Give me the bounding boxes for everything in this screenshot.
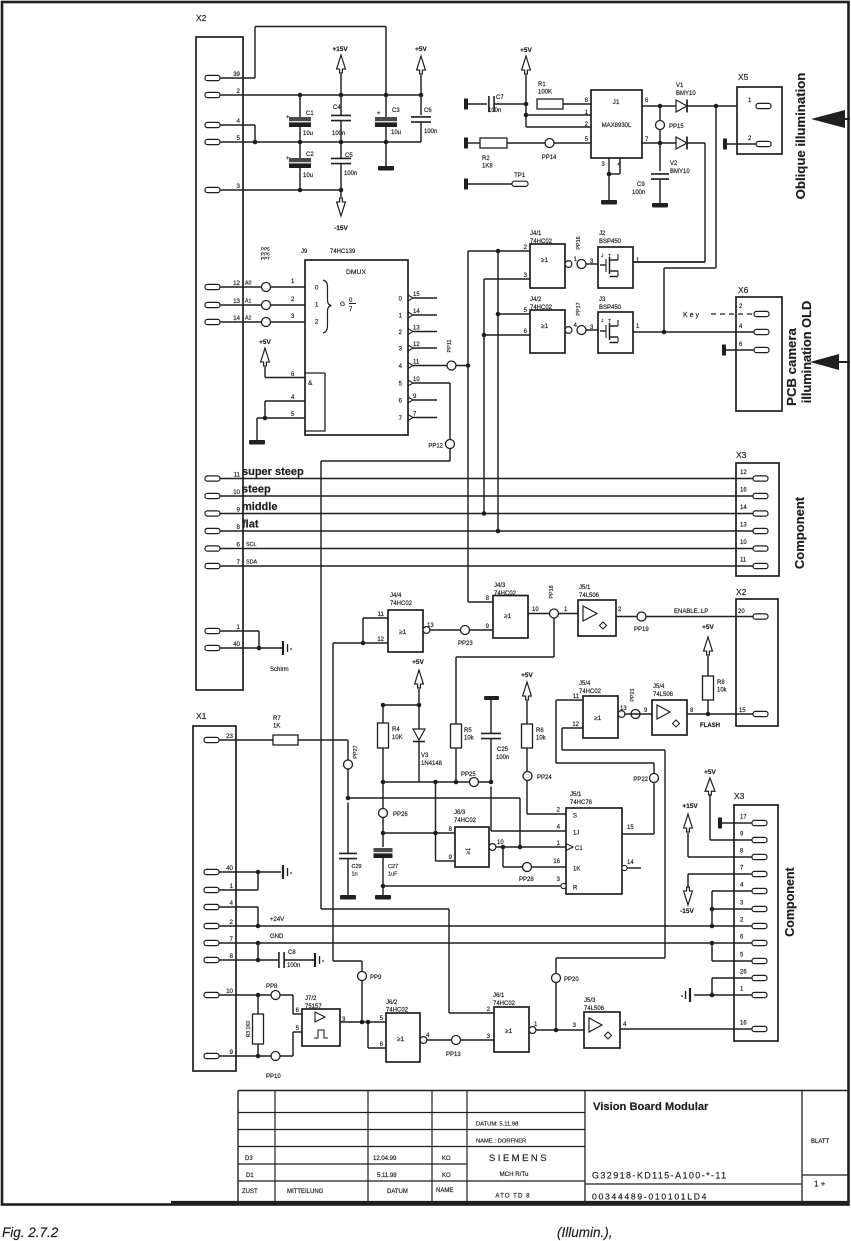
- X1 pin 9: [204, 1049, 234, 1059]
- power +15V (X3-8): [682, 803, 752, 857]
- wire X1-9 row / testpoint PP10: [219, 1032, 302, 1080]
- svg-text:12.04.99: 12.04.99: [373, 1156, 397, 1162]
- svg-text:A0: A0: [245, 281, 251, 287]
- terminal TP1 input: [464, 179, 468, 190]
- svg-text:S: S: [573, 814, 577, 820]
- svg-text:4: 4: [623, 1022, 627, 1028]
- connector X3 (bottom): [734, 791, 778, 1041]
- svg-text:BMY10: BMY10: [676, 91, 696, 97]
- svg-text:11: 11: [234, 472, 241, 479]
- X1 pin 4: [204, 900, 234, 910]
- gate J4/2 74HC02: [524, 297, 578, 353]
- svg-text:8: 8: [486, 596, 490, 602]
- svg-text:5: 5: [740, 953, 744, 959]
- svg-text:DATUM: DATUM: [387, 1189, 408, 1195]
- svg-text:V2: V2: [670, 161, 678, 167]
- svg-text:100n: 100n: [424, 129, 437, 135]
- svg-text:X1: X1: [196, 711, 207, 721]
- svg-text:R8: R8: [717, 680, 725, 686]
- X1 pin 7: [204, 936, 234, 946]
- wire X3-26/1 tie: [710, 978, 752, 997]
- power +5V (top): [415, 46, 427, 95]
- svg-text:1J: 1J: [573, 831, 579, 837]
- svg-text:7: 7: [349, 307, 353, 313]
- svg-text:100n: 100n: [632, 190, 645, 196]
- svg-text:1: 1: [748, 98, 752, 104]
- wire J1 pins 1,2 tie: [524, 104, 591, 127]
- svg-text:PP21: PP21: [630, 688, 636, 701]
- svg-text:2: 2: [230, 919, 234, 926]
- svg-text:PP24: PP24: [537, 775, 552, 781]
- X6 pin 6: [726, 342, 769, 353]
- svg-text:8: 8: [230, 953, 234, 960]
- svg-text:0: 0: [399, 297, 403, 303]
- svg-text:12: 12: [413, 342, 420, 348]
- IC J7/2 75157: [296, 996, 386, 1046]
- signal row steep: [220, 484, 768, 499]
- svg-text:MAX8930L: MAX8930L: [602, 123, 632, 129]
- X2 pin 8: [205, 524, 241, 534]
- svg-text:FLASH: FLASH: [700, 723, 720, 729]
- svg-text:12: 12: [572, 722, 579, 728]
- svg-text:3: 3: [573, 1023, 577, 1029]
- svg-text:V1: V1: [676, 83, 684, 89]
- svg-text:PP16: PP16: [576, 236, 582, 249]
- X2 pin 7: [205, 559, 241, 569]
- svg-text:J9: J9: [301, 249, 308, 255]
- svg-text:+15V: +15V: [332, 46, 348, 53]
- svg-text:(Illumin.),: (Illumin.),: [557, 1225, 613, 1240]
- svg-text:3: 3: [524, 273, 528, 279]
- svg-text:11: 11: [740, 558, 747, 564]
- svg-text:V3: V3: [421, 753, 429, 759]
- svg-text:16: 16: [740, 488, 747, 494]
- svg-text:J4/3: J4/3: [494, 583, 506, 589]
- svg-text:PP15: PP15: [669, 124, 684, 130]
- X2 pin 40: [205, 641, 241, 651]
- testpoint PP17: [576, 302, 594, 334]
- svg-text:ZUST: ZUST: [242, 1189, 258, 1195]
- svg-text:8: 8: [690, 708, 694, 714]
- resistor R2 1K8: [468, 138, 591, 170]
- resistor R8 10k: [703, 676, 728, 716]
- svg-text:5: 5: [585, 137, 589, 143]
- svg-text:9: 9: [237, 507, 241, 514]
- labels PP5 PP6 PP7: [261, 247, 270, 262]
- svg-text:11: 11: [413, 360, 420, 366]
- X2 pin 9: [205, 507, 241, 517]
- wire +24V row: [219, 917, 753, 928]
- wire J1-6 row: [642, 105, 676, 107]
- svg-text:C29: C29: [352, 864, 362, 870]
- svg-text:PP22: PP22: [633, 777, 648, 783]
- svg-text:2: 2: [399, 330, 403, 336]
- title block texts left: [242, 1122, 549, 1200]
- svg-text:0: 0: [315, 286, 319, 292]
- svg-text:14: 14: [413, 309, 420, 315]
- svg-text:NAME : DORFNER: NAME : DORFNER: [476, 1139, 526, 1145]
- svg-text:R7: R7: [273, 716, 281, 722]
- svg-text:4: 4: [291, 395, 295, 401]
- svg-text:C25: C25: [497, 747, 509, 753]
- svg-text:4: 4: [739, 324, 743, 330]
- svg-text:17: 17: [740, 815, 747, 821]
- svg-text:X2: X2: [736, 587, 747, 597]
- X2 pin 11: [205, 472, 241, 482]
- svg-text:J: J: [601, 253, 604, 259]
- svg-text:15: 15: [627, 825, 634, 831]
- capacitor C25 100n: [481, 696, 509, 784]
- X3 pin 5: [740, 953, 767, 964]
- svg-text:5.11.98: 5.11.98: [377, 1173, 397, 1179]
- svg-text:≥1: ≥1: [397, 1036, 405, 1043]
- svg-text:40: 40: [226, 865, 233, 872]
- X3 pin 2: [740, 918, 767, 929]
- wire X2-4 to pin5 rail: [220, 125, 257, 144]
- svg-text:10u: 10u: [391, 130, 401, 136]
- svg-text:super steep: super steep: [242, 466, 304, 478]
- svg-text:PP28: PP28: [519, 877, 534, 883]
- testpoint PP13: [427, 1036, 494, 1059]
- svg-text:C8: C8: [288, 950, 296, 956]
- resistor R7 1K: [219, 716, 348, 745]
- svg-text:steep: steep: [242, 484, 271, 496]
- svg-text:6: 6: [524, 329, 528, 335]
- svg-text:26: 26: [740, 970, 747, 976]
- wire ENABLE..LP row / testpoint PP19: [616, 609, 753, 633]
- resistor R1 100K: [537, 82, 591, 109]
- svg-text:PP27: PP27: [353, 745, 359, 758]
- svg-text:-15V: -15V: [334, 225, 348, 232]
- wire X3-1 earth: [681, 988, 752, 1002]
- svg-text:J4/4: J4/4: [390, 593, 402, 599]
- gate J6/2 74HC02: [380, 1000, 430, 1062]
- diode V3 1N4148: [413, 705, 443, 782]
- testpoint PP16: [576, 236, 594, 268]
- svg-text:10: 10: [233, 489, 240, 496]
- svg-text:+: +: [377, 111, 381, 117]
- svg-text:2: 2: [739, 304, 743, 310]
- wire net A (PP12 to J6/1): [321, 461, 494, 1013]
- svg-text:6: 6: [237, 542, 241, 549]
- svg-text:1: 1: [315, 303, 319, 309]
- svg-text:74HC76: 74HC76: [570, 800, 593, 806]
- svg-text:15: 15: [413, 292, 420, 298]
- svg-text:J5/3: J5/3: [584, 998, 596, 1004]
- resistor R4 10K: [378, 705, 403, 784]
- svg-text:MITTEILUNG: MITTEILUNG: [287, 1189, 324, 1195]
- J9 output 4 pin 11 / testpoint PP11: [399, 339, 471, 370]
- svg-text:10u: 10u: [303, 173, 313, 179]
- X2 pin 20: [738, 609, 768, 619]
- X1 pin 23: [204, 733, 234, 743]
- gate J4/1 74HC02: [524, 231, 578, 288]
- capacitor C27 1uF: [374, 848, 399, 895]
- X1 pin 40: [204, 865, 234, 875]
- wire J1-7 row: [642, 142, 676, 144]
- gate J6/3 74HC02: [449, 810, 505, 867]
- wire J5/4-12 feedback chain: [554, 728, 665, 1032]
- wire J6/3 out to C1: [496, 845, 566, 850]
- svg-text:10: 10: [413, 377, 420, 383]
- svg-text:1K: 1K: [573, 867, 580, 873]
- svg-text:+5V: +5V: [415, 46, 427, 53]
- svg-text:4: 4: [230, 900, 234, 907]
- X1 pin 2: [204, 919, 234, 929]
- capacitor C5 100n: [331, 142, 357, 190]
- svg-text:Oblique illumination: Oblique illumination: [793, 73, 808, 200]
- X2 pin 2: [205, 88, 241, 98]
- buffer J5/3 74LS06: [573, 998, 753, 1048]
- svg-text:+: +: [286, 156, 290, 162]
- wire X2-39 to +5V rail: [220, 27, 386, 96]
- IC J9 74HC139 DMUX: [301, 249, 408, 435]
- svg-text:9: 9: [740, 832, 744, 838]
- svg-text:12: 12: [740, 470, 747, 476]
- svg-text:J1: J1: [613, 99, 620, 106]
- svg-text:PP13: PP13: [446, 1052, 461, 1058]
- connector X1: [193, 711, 236, 1071]
- X2 pin 3: [205, 183, 241, 193]
- svg-text:Fig. 2.7.2: Fig. 2.7.2: [2, 1225, 59, 1240]
- svg-text:2: 2: [618, 607, 622, 613]
- svg-text:+5V: +5V: [412, 659, 424, 666]
- svg-text:9: 9: [486, 624, 490, 630]
- svg-text:D1: D1: [246, 1173, 254, 1179]
- J9 output 0 pin 15: [399, 292, 437, 303]
- svg-text:J6/2: J6/2: [386, 1000, 398, 1006]
- wire X1-8 row: [219, 943, 278, 962]
- power +15V: [332, 46, 348, 95]
- svg-text:+5V: +5V: [521, 672, 533, 679]
- svg-text:R: R: [573, 886, 578, 892]
- svg-text:MCH R/Tu: MCH R/Tu: [500, 1171, 530, 1178]
- svg-text:74HC02: 74HC02: [390, 601, 413, 607]
- capacitor C29 1n: [339, 803, 362, 896]
- capacitor C7 100n: [468, 95, 526, 114]
- svg-text:7: 7: [740, 866, 744, 872]
- svg-text:BSP450: BSP450: [599, 239, 622, 245]
- signal row middle: [220, 501, 768, 516]
- svg-text:39: 39: [233, 71, 240, 78]
- X5 pin 2: [727, 136, 771, 147]
- svg-text:+5V: +5V: [259, 339, 271, 346]
- testpoint PP24: [523, 772, 552, 782]
- terminal C7 input: [464, 99, 468, 110]
- X6 pin 4: [739, 324, 769, 335]
- svg-text:J6/3: J6/3: [454, 810, 466, 816]
- svg-text:flat: flat: [242, 519, 259, 531]
- title block texts right: [592, 1101, 830, 1202]
- svg-text:00344489-010101LD4: 00344489-010101LD4: [592, 1192, 708, 1202]
- wire V1 branch down to X6-4: [662, 106, 716, 334]
- svg-text:SIEMENS: SIEMENS: [489, 1153, 549, 1164]
- svg-text:40: 40: [233, 641, 240, 648]
- signal row SCL: [220, 540, 768, 551]
- svg-text:J5/1: J5/1: [579, 585, 591, 591]
- wire J4/2 pin6 net to flat: [484, 334, 530, 336]
- testpoint PP9: [358, 972, 383, 982]
- svg-text:100n: 100n: [287, 963, 300, 969]
- svg-text:6: 6: [645, 98, 649, 104]
- wire J4/1 pin3 net to middle: [482, 279, 530, 516]
- svg-text:+5V: +5V: [704, 769, 716, 776]
- svg-text:C2: C2: [306, 152, 314, 158]
- svg-text:PP11: PP11: [447, 339, 453, 352]
- J9 output 6 pin 9: [399, 394, 437, 405]
- svg-text:4: 4: [557, 825, 561, 831]
- svg-text:1: 1: [564, 607, 568, 613]
- svg-text:5: 5: [524, 308, 528, 314]
- svg-text:1: 1: [291, 279, 295, 285]
- svg-text:3: 3: [740, 901, 744, 907]
- svg-text:5: 5: [291, 412, 295, 418]
- X2 pin 39: [205, 71, 241, 81]
- svg-text:X3: X3: [734, 791, 745, 801]
- svg-text:J4/1: J4/1: [530, 231, 542, 237]
- wire J4/2 pin5 net: [496, 251, 530, 533]
- svg-text:1: 1: [399, 314, 403, 320]
- X1 pin 1: [204, 883, 234, 893]
- svg-text:PP25: PP25: [461, 772, 476, 778]
- ground bar J9: [249, 440, 265, 445]
- svg-text:≥1: ≥1: [399, 629, 407, 636]
- svg-text:R3 1K0: R3 1K0: [246, 1020, 252, 1037]
- svg-text:R4: R4: [392, 727, 400, 733]
- X2 pin 4: [205, 118, 241, 128]
- svg-text:13: 13: [233, 298, 240, 305]
- arrow marker PCB camera: [810, 354, 850, 370]
- wire X1-10 row / testpoint PP8: [219, 984, 302, 1014]
- wire V2 branch down to J2 out: [633, 143, 705, 262]
- svg-text:74HC02: 74HC02: [579, 689, 602, 695]
- svg-text:2: 2: [291, 297, 295, 303]
- svg-text:74L506: 74L506: [579, 593, 600, 599]
- capacitor C3 10u: [375, 95, 401, 166]
- svg-text:J5/1: J5/1: [570, 792, 582, 798]
- X1 pin 10: [204, 988, 234, 998]
- ground bar C9: [652, 203, 668, 208]
- svg-text:2: 2: [740, 918, 744, 924]
- svg-text:C1: C1: [306, 111, 314, 117]
- svg-text:8: 8: [237, 524, 241, 531]
- svg-text:K e y: K e y: [683, 312, 699, 319]
- signal row super steep: [220, 466, 768, 481]
- svg-text:1: 1: [636, 324, 640, 330]
- svg-text:3: 3: [399, 347, 403, 353]
- X3 pin 3: [740, 901, 767, 912]
- svg-text:A1: A1: [245, 299, 251, 305]
- svg-text:1uF: 1uF: [388, 872, 398, 878]
- svg-text:C6: C6: [424, 108, 432, 114]
- svg-text:PP8: PP8: [266, 984, 278, 990]
- svg-text:1: 1: [230, 883, 234, 890]
- ground bar C29: [340, 895, 356, 900]
- svg-text:4: 4: [237, 118, 241, 125]
- wire J6/3 input ties: [381, 782, 455, 861]
- wire GND row: [219, 934, 753, 945]
- testpoint PP21: [625, 688, 652, 718]
- svg-text:8: 8: [740, 849, 744, 855]
- svg-text:Schirm: Schirm: [270, 667, 289, 673]
- svg-text:ENABLE..LP: ENABLE..LP: [674, 609, 708, 615]
- svg-text:J2: J2: [599, 231, 606, 237]
- svg-text:12: 12: [233, 280, 240, 287]
- signal row flat: [220, 519, 768, 534]
- earth symbol Schirm: [270, 641, 292, 673]
- power -15V (X3-7): [680, 874, 752, 915]
- svg-text:74HC02: 74HC02: [493, 1001, 516, 1007]
- svg-text:11: 11: [378, 612, 385, 618]
- power +5V (R6): [521, 672, 533, 724]
- svg-text:10k: 10k: [717, 688, 728, 694]
- svg-text:R6: R6: [536, 728, 544, 734]
- svg-text:BSP450: BSP450: [599, 305, 622, 311]
- connector X3 (middle): [736, 450, 779, 576]
- svg-text:9: 9: [230, 1049, 234, 1056]
- svg-text:2: 2: [557, 808, 561, 814]
- svg-text:1: 1: [237, 624, 241, 631]
- svg-text:9: 9: [413, 394, 417, 400]
- X3 pin 17: [740, 815, 767, 826]
- svg-text:PP7: PP7: [261, 256, 270, 261]
- resistor R5 10k: [451, 657, 475, 784]
- svg-text:6: 6: [740, 935, 744, 941]
- svg-text:illumination OLD: illumination OLD: [799, 301, 814, 403]
- svg-text:R2: R2: [482, 156, 490, 162]
- svg-text:PCB camera: PCB camera: [784, 327, 799, 405]
- svg-text:7: 7: [399, 416, 403, 422]
- connector X6: [736, 285, 782, 411]
- diode V1 BMY10: [676, 83, 737, 113]
- svg-text:1N4148: 1N4148: [421, 761, 443, 767]
- svg-text:1n: 1n: [352, 872, 358, 878]
- J9 output 1 pin 14: [399, 309, 437, 320]
- J9 output 7 pin 7: [399, 412, 437, 423]
- svg-text:≥1: ≥1: [541, 323, 549, 330]
- svg-text:6: 6: [399, 399, 403, 405]
- svg-text:1 +: 1 +: [814, 1180, 826, 1189]
- terminal X6-6: [722, 345, 726, 356]
- svg-text:4: 4: [740, 883, 744, 889]
- wire X1-1 tie: [219, 872, 258, 890]
- wire X2-3 bottom rail: [220, 188, 343, 193]
- X3 pin 26: [740, 970, 767, 981]
- wire X2-12 to A0: [220, 279, 305, 292]
- svg-text:100n: 100n: [496, 755, 509, 761]
- svg-text:BLATT: BLATT: [811, 1139, 830, 1145]
- svg-text:5: 5: [399, 382, 403, 388]
- X2 pin 6: [205, 542, 241, 552]
- J9 output 2 pin 13: [399, 326, 437, 337]
- svg-text:BMY10: BMY10: [670, 169, 690, 175]
- svg-text:SDA: SDA: [246, 560, 257, 566]
- svg-text:X6: X6: [738, 285, 749, 295]
- capacitor C9 100n: [632, 143, 669, 203]
- svg-text:1: 1: [534, 1022, 538, 1028]
- buffer J5/1 74LS06: [578, 585, 622, 636]
- svg-text:13: 13: [620, 706, 627, 712]
- svg-text:J6/1: J6/1: [493, 993, 505, 999]
- svg-text:2: 2: [237, 88, 241, 95]
- svg-text:J4/2: J4/2: [530, 297, 542, 303]
- gate J6/1 74HC02: [487, 993, 584, 1052]
- capacitor C8 100n: [279, 950, 314, 969]
- X2 pin 10: [205, 489, 241, 499]
- terminal X5-2: [723, 139, 727, 150]
- X1 pin 8: [204, 953, 234, 963]
- svg-text:3: 3: [601, 162, 605, 168]
